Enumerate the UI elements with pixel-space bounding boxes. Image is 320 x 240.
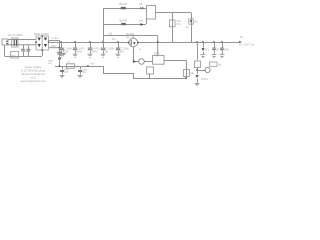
svg-text:v1.0: v1.0 [30, 75, 36, 79]
svg-text:BA159: BA159 [120, 19, 128, 22]
svg-text:NTC: NTC [12, 55, 17, 57]
svg-text:1n5: 1n5 [139, 19, 144, 22]
svg-text:50V: 50V [82, 72, 87, 74]
svg-text:400V: 400V [77, 50, 83, 53]
svg-text:4N35: 4N35 [154, 52, 160, 55]
svg-text:www.softgenesis.com: www.softgenesis.com [21, 79, 46, 83]
svg-text:1n5: 1n5 [139, 3, 144, 6]
svg-text:100n: 100n [82, 70, 88, 72]
svg-text:5V1: 5V1 [205, 48, 210, 51]
svg-text:470u: 470u [64, 70, 70, 72]
svg-text:+5 - OUT / 5m: +5 - OUT / 5m [239, 44, 255, 47]
svg-text:TL431: TL431 [201, 78, 208, 81]
svg-text:1n 1kV: 1n 1kV [51, 37, 59, 40]
svg-text:50V: 50V [120, 50, 125, 53]
svg-text:10V: 10V [64, 72, 69, 74]
svg-text:47u: 47u [177, 23, 182, 26]
svg-text:BUZ90: BUZ90 [127, 33, 135, 36]
svg-text:+5V: +5V [90, 63, 95, 66]
svg-text:4R7 2W: 4R7 2W [119, 3, 128, 6]
svg-text:B250 C1500: B250 C1500 [34, 32, 49, 36]
svg-text:1R: 1R [139, 49, 142, 51]
svg-text:AC IN 230V: AC IN 230V [8, 33, 23, 37]
svg-text:1W: 1W [105, 50, 109, 53]
svg-text:400V: 400V [92, 50, 98, 53]
svg-text:100n: 100n [224, 48, 230, 51]
svg-text:5V: 5V [240, 35, 243, 39]
